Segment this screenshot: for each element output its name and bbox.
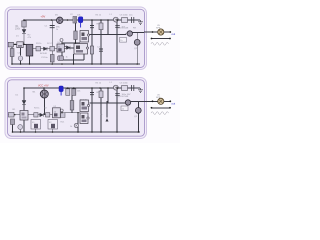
waveform annotation P1 <box>151 42 169 45</box>
wire: P2 x107 branch <box>106 101 108 118</box>
resistor R12 <box>34 113 38 117</box>
wire: P1 right heavy vertical <box>116 20 118 64</box>
trimmer circle P2 <box>74 123 78 127</box>
transformer TR1 hatched box <box>26 44 33 56</box>
svg-text:C3 10u: C3 10u <box>41 57 49 59</box>
capacitor C4 <box>90 26 94 28</box>
P2 external output line <box>144 100 158 102</box>
capacitor C1 <box>50 26 55 28</box>
wire: P1 hatched box stub <box>29 56 31 64</box>
junction dot <box>152 31 154 33</box>
transistor box U1 <box>80 31 89 43</box>
wire: P1 bottom rail <box>12 63 140 65</box>
box U9 P2 <box>53 108 61 118</box>
transistor box U3 <box>74 44 88 55</box>
svg-text:SPK: SPK <box>156 28 161 30</box>
arrow A1 <box>106 118 109 121</box>
svg-text:BC548: BC548 <box>40 53 47 55</box>
wire: P2 x92 branch <box>91 88 93 132</box>
panel 1 outer border <box>5 7 147 70</box>
panel 1 inner border <box>8 9 145 67</box>
transistor box U8 <box>80 113 88 124</box>
resistor R6 vertical <box>74 31 77 40</box>
microphone MIC1 <box>57 17 63 23</box>
box small P2 <box>61 113 65 118</box>
fuse F2 <box>122 86 128 91</box>
box U4 <box>57 44 65 52</box>
resistor R14 <box>11 119 15 125</box>
capacitor CE3 horizontal <box>58 56 64 61</box>
resistor R11 vertical <box>70 101 74 111</box>
resistor R2 <box>36 47 41 51</box>
wire: P1 input line <box>8 43 26 45</box>
transistor box U7 <box>80 100 89 112</box>
svg-text:1k: 1k <box>58 47 60 49</box>
junction dots P2 <box>12 87 139 133</box>
boxed component X1 <box>20 111 28 121</box>
box U6 <box>121 106 128 111</box>
wire: P2 T2 collector <box>137 101 139 107</box>
wire: P1 cap circle stubs <box>20 48 22 64</box>
wire: P1 collector line <box>133 31 145 33</box>
diode D4 <box>22 96 26 108</box>
resistor PA on input line <box>8 42 13 47</box>
wire: P2 mic to line <box>44 97 46 114</box>
panel 2 inner border <box>8 80 145 136</box>
LED L1 <box>113 17 118 22</box>
transistor Q3 <box>125 100 130 105</box>
svg-text:100k: 100k <box>15 28 21 30</box>
panel 2 outer border <box>5 78 147 139</box>
wire: P1 signal line to output <box>90 34 127 35</box>
waveform annotation P2 <box>151 112 169 115</box>
resistor R17 <box>90 46 93 54</box>
wire: P2 collector line <box>131 100 144 102</box>
junction node <box>67 19 69 21</box>
resistor R8 <box>72 89 76 96</box>
wire: P2 base line <box>65 112 80 114</box>
return line P2 <box>152 107 171 109</box>
node circle <box>60 39 63 42</box>
wire: P2 R10 stub <box>12 125 14 133</box>
svg-text:1k: 1k <box>56 29 58 31</box>
capacitor C8 below rail <box>115 26 120 28</box>
svg-text:MIC: MIC <box>56 27 60 29</box>
wire: P1 T2 emitter <box>136 45 138 64</box>
capacitor C2 <box>73 17 77 24</box>
potentiometer RV2 (blue) <box>59 86 63 92</box>
junction dots P1 bottom <box>11 19 138 65</box>
wire: P2 mic stub <box>43 88 45 90</box>
wire: P2 left vertical <box>23 88 25 132</box>
wire: P2 x101 branch <box>100 88 102 132</box>
opto box OB1 <box>31 120 41 130</box>
wire: P2 T2 emitter <box>137 113 139 132</box>
capacitor CE1 <box>18 56 23 61</box>
wire out P2 <box>164 100 170 102</box>
resistor R3 <box>50 47 55 51</box>
diode D1 <box>22 27 26 44</box>
capacitor CE2 <box>18 125 23 130</box>
svg-text:out: out <box>172 32 176 36</box>
wire: P1 R emitter branch <box>75 23 77 43</box>
wire: P2 right heavy vertical <box>116 88 118 132</box>
resistor R1 <box>22 21 26 27</box>
transistor Q1 <box>127 31 132 36</box>
wire: P1 T2 collector <box>136 32 138 39</box>
svg-text:out: out <box>172 101 176 105</box>
svg-text:Q1 BC548: Q1 BC548 <box>118 96 129 98</box>
wire: P2 x78 branch <box>77 113 79 132</box>
wire: P1 R16 stubs <box>11 47 13 64</box>
svg-text:R3 1k: R3 1k <box>34 108 40 110</box>
resistor R7 <box>66 89 70 96</box>
wire: P2 X1 bottom stub <box>23 120 25 132</box>
resistor R55 <box>99 91 103 98</box>
ground P1 <box>138 20 143 25</box>
svg-text:SPK: SPK <box>156 97 161 99</box>
wire: P2 cap circle stub <box>19 129 21 132</box>
wire: P2 top rail <box>24 87 140 89</box>
svg-text:C6 100n: C6 100n <box>120 15 129 17</box>
resistor R16 vertical <box>10 49 14 57</box>
diode D2 <box>67 46 71 50</box>
svg-text:C6 100n: C6 100n <box>120 83 129 85</box>
microphone MIC2 <box>40 90 48 98</box>
opto box OB2 <box>48 120 58 130</box>
capacitor C14 <box>90 93 94 95</box>
fuse F1 <box>122 18 128 23</box>
wire: P1 x108 stub <box>107 20 109 35</box>
node circle P2 <box>60 109 63 112</box>
transistor Q4 <box>135 108 141 114</box>
ground P2 <box>138 88 143 93</box>
diode D3 <box>44 47 48 51</box>
potentiometer RV1 (blue) <box>78 17 82 23</box>
wire: P1 B2 left pin down <box>73 54 75 64</box>
svg-text:Q1 BC548: Q1 BC548 <box>118 28 129 30</box>
wire: P1 x92 branch <box>91 20 93 64</box>
resistor R10 <box>9 112 15 117</box>
wire: P2 input line <box>8 114 34 116</box>
box U2 <box>120 38 127 43</box>
svg-text:VCC +9V: VCC +9V <box>38 85 49 88</box>
capacitor C5 <box>132 17 134 23</box>
wire: P1 x101 branch <box>100 20 102 64</box>
svg-text:D2 C3: D2 C3 <box>47 43 54 45</box>
wire: P1 C1 branch <box>51 20 53 64</box>
capacitor C15 <box>132 85 134 91</box>
wire: P2 x108 stub <box>107 88 109 103</box>
wire: P1 left vertical <box>23 20 25 27</box>
P1 external output line <box>144 31 158 33</box>
speaker SPK2 <box>158 98 164 104</box>
wire: P1 base line <box>62 42 80 44</box>
svg-text:R5 1k: R5 1k <box>96 15 102 17</box>
wire: P2 OB stubs <box>36 129 53 132</box>
speaker SPK1 <box>158 29 164 35</box>
svg-text:1k: 1k <box>66 57 68 59</box>
wire: P1 mid line <box>33 47 74 50</box>
svg-text:+9V: +9V <box>41 15 46 19</box>
wire: P2 signal line <box>90 102 126 105</box>
svg-text:R5 1k: R5 1k <box>96 83 102 85</box>
wire: P1 emitter run <box>62 48 84 61</box>
resistor R13 <box>46 113 50 117</box>
LED L2 <box>113 85 118 90</box>
boxed component PB <box>17 42 23 48</box>
wire: P2 bottom rail <box>12 131 140 133</box>
resistor R4 vertical <box>50 55 54 63</box>
capacitor C7 <box>99 49 103 51</box>
wire: P1 top rail <box>24 19 140 21</box>
transistor Q2 <box>134 39 140 45</box>
return line P1 <box>152 38 171 40</box>
svg-text:R3 1k: R3 1k <box>36 43 42 45</box>
wire: P2 R72 stubs <box>71 95 73 112</box>
capacitor C18 below rail <box>115 94 120 96</box>
wire: P2 mid line <box>34 114 60 116</box>
svg-text:1k: 1k <box>54 111 56 113</box>
resistor R5 <box>99 23 103 30</box>
wire out <box>164 31 170 33</box>
diode D5 <box>40 113 44 117</box>
